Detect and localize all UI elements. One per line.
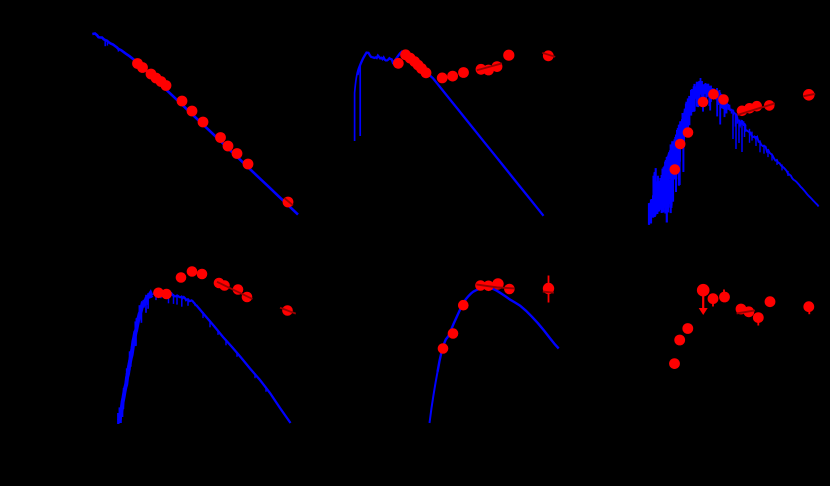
panel 6 photometry points (red) [669, 292, 814, 369]
panel 3 photometry points (red) [670, 89, 815, 175]
panel 4 bandwidth bar through mid points (dark red) [217, 282, 253, 299]
panel 1 noise ticks near start [104, 40, 106, 46]
panel 5 model blackbody curve (blue) [430, 372, 438, 423]
panel 6 small error ticks (red) [712, 304, 714, 307]
panel 2 main spectrum curve [358, 52, 544, 216]
panel 2 model spectrum rise and plateau (blue) [355, 69, 359, 142]
panel 5 bandwidth bar right of peak (dark red) [495, 287, 514, 288]
panel 3 bandwidth bar through right point (dark red) [803, 94, 815, 97]
panel 4 bandwidth bar through right point (dark red) [280, 308, 296, 314]
panel 2 bandwidth bar through right point (dark red) [542, 53, 555, 57]
panel 4 model spectrum with noisy rise (blue) [119, 293, 152, 420]
panel 4 photometry points (red) [153, 266, 293, 316]
panel 2 photometry points (red) [393, 49, 554, 83]
panel 3 bandwidth bar through mid cluster (dark red) [737, 103, 775, 115]
panel 1 photometry points (red) [132, 58, 293, 207]
panel 5 vertical error bar on right point (red) [548, 276, 550, 303]
panel 3 noisy observed spectrum (blue) [648, 203, 650, 225]
panel 1 bandwidth bar on last point (dark red) [285, 198, 294, 205]
panel 5 bandwidth bar through peak cluster (dark red) [476, 284, 501, 288]
panel 1 model spectrum (blue power-law) [92, 34, 298, 215]
panel 6 bandwidth bar through cluster (dark red) [737, 310, 755, 313]
panel 6 upper limit point with down arrow (red) [697, 284, 710, 297]
panel 5 bandwidth bar through far right point (dark red) [543, 292, 554, 293]
panel 2 second noise strand [359, 66, 361, 136]
panel 2 bandwidth bar through mid cluster (dark red) [477, 63, 502, 70]
panel 5 photometry points (red) [438, 278, 555, 354]
